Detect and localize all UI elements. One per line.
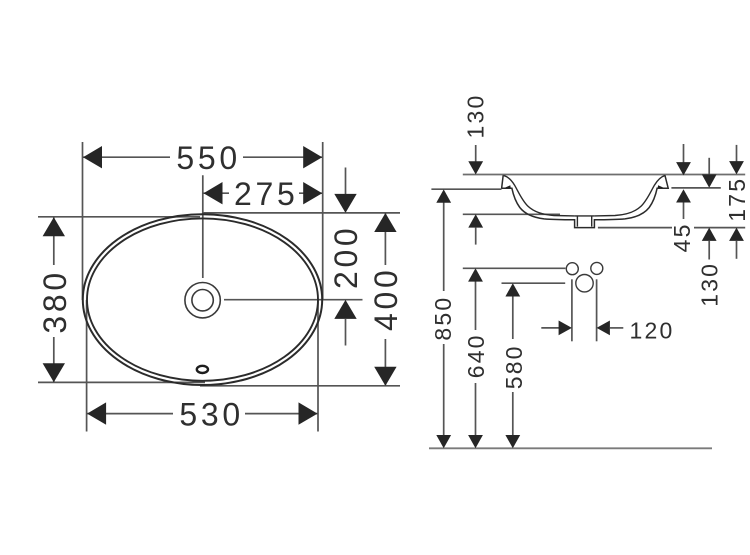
- label 530: [173, 400, 245, 428]
- ext line 120 left: [571, 279, 573, 341]
- dimension line 400: [384, 213, 386, 385]
- center horizontal line H7: [224, 299, 363, 301]
- dim 130-right lower tail: [708, 241, 710, 260]
- hatch wedge right rim: [658, 185, 665, 188]
- dimension line 550: [83, 156, 323, 158]
- hatch wedge left rim: [504, 185, 511, 188]
- dim 130-top upper tail: [475, 145, 477, 162]
- dimension line 850: [443, 202, 445, 436]
- svg-text:120: 120: [630, 317, 675, 343]
- inner ellipse of basin: [87, 218, 318, 380]
- drain inner wall right: [591, 216, 593, 227]
- label 580 (rotated): [501, 339, 524, 392]
- arrow 45 up: [676, 189, 691, 202]
- arrow 850 up: [436, 189, 451, 202]
- dim 175 upper tail: [736, 145, 738, 162]
- label 45 (rotated): [672, 220, 694, 253]
- arrow 130-top down: [468, 161, 483, 174]
- basin inner bowl surface left: [504, 175, 575, 216]
- svg-text:275: 275: [234, 176, 299, 212]
- arrow 400 down: [374, 367, 396, 386]
- label 550: [170, 144, 243, 171]
- arrow 640 up: [468, 268, 483, 281]
- svg-text:400: 400: [368, 267, 404, 332]
- ext line 120 right: [596, 279, 598, 341]
- dim 120 right tail: [610, 327, 623, 329]
- floor line: [429, 447, 712, 449]
- arrow 530 left: [87, 402, 106, 424]
- arrow 45 down: [676, 162, 691, 175]
- extension line V2 left 530: [86, 300, 88, 432]
- dimension line 380: [53, 218, 55, 383]
- dim 130-top lower tail: [475, 228, 477, 245]
- rim top line L1: [463, 174, 745, 176]
- svg-text:380: 380: [37, 269, 73, 334]
- arrow 200 down: [334, 194, 356, 213]
- label 275: [229, 180, 299, 207]
- dimension line 275: [204, 192, 323, 194]
- extension line V3 right 550/275: [322, 142, 324, 300]
- arrow 530 right: [299, 402, 318, 424]
- arrow 120 right-pointing: [559, 321, 572, 336]
- arrow 640 down: [468, 435, 483, 448]
- dimension 200 lower tail: [345, 318, 347, 345]
- dim 175 lower tail: [736, 241, 738, 259]
- arrow 550 right: [303, 146, 322, 168]
- center extension line V5: [202, 175, 204, 278]
- arrow 200 up: [334, 300, 356, 319]
- svg-text:130: 130: [696, 262, 722, 307]
- arrow 550 left: [83, 146, 102, 168]
- outer ellipse of basin: [83, 214, 322, 385]
- dim 120 left tail: [541, 327, 560, 329]
- label 640 (rotated): [464, 330, 487, 383]
- svg-text:550: 550: [176, 140, 241, 176]
- svg-text:640: 640: [463, 333, 489, 378]
- arrow 175 up: [729, 228, 744, 241]
- tangent line H6 bottom-right: [200, 385, 400, 387]
- supply hole right circle: [591, 262, 603, 274]
- svg-text:530: 530: [179, 397, 244, 433]
- svg-text:850: 850: [430, 296, 456, 341]
- arrow 120 left-pointing: [597, 321, 610, 336]
- tangent line H4 top-right: [202, 212, 400, 214]
- svg-text:580: 580: [501, 344, 527, 389]
- drain inner circle: [192, 290, 213, 311]
- label 400 (rotated): [371, 265, 399, 339]
- dimension 200 upper tail: [345, 168, 347, 196]
- arrow 380 up: [43, 217, 65, 236]
- arrow 580 up: [505, 283, 520, 296]
- extension line V1 left 550: [82, 142, 84, 300]
- dim 45 lower tail: [683, 203, 685, 220]
- connection line LB: [463, 267, 566, 269]
- svg-text:45: 45: [669, 222, 695, 252]
- drain mouth line: [575, 215, 595, 217]
- basin inner bowl surface right: [594, 175, 665, 216]
- arrow 850 down: [436, 435, 451, 448]
- drain outer circle: [185, 283, 220, 318]
- rim underside line L2 left: [431, 188, 501, 190]
- svg-text:130: 130: [463, 94, 489, 139]
- svg-text:200: 200: [328, 225, 364, 290]
- extension line V4 right 530: [317, 300, 319, 432]
- rim underside line L2 right: [671, 187, 720, 189]
- label 850 (rotated): [432, 291, 455, 344]
- arrow 580 down: [505, 435, 520, 448]
- label 380 (rotated): [39, 265, 67, 337]
- dimension line 580: [512, 296, 514, 436]
- svg-text:175: 175: [724, 177, 750, 222]
- overflow hole: [197, 366, 208, 373]
- arrow 275 right: [303, 182, 322, 204]
- basin outer shell profile: [502, 175, 669, 227]
- connection line LC: [502, 282, 566, 284]
- arrow 175 down: [729, 161, 744, 174]
- dimension line 530: [87, 413, 318, 415]
- tangent line H3 top-left: [38, 216, 200, 218]
- dim 130-right upper tail: [708, 158, 710, 175]
- apron bottom line L3: [598, 227, 745, 229]
- supply hole left circle: [566, 263, 578, 275]
- arrow 275 left: [204, 182, 223, 204]
- arrow 130-top up (bowl bottom): [468, 214, 483, 227]
- arrow 130-right down: [702, 174, 717, 187]
- dimension line 640: [475, 281, 477, 436]
- tangent line H5 bottom-left: [38, 381, 205, 383]
- dim 45 upper tail: [683, 144, 685, 163]
- arrow 380 down: [43, 363, 65, 382]
- arrow 130-right up: [702, 228, 717, 241]
- bowl depth line LA: [463, 213, 560, 215]
- drain inner wall left: [576, 216, 578, 227]
- arrow 400 up: [374, 213, 396, 232]
- waste hole big circle: [576, 275, 593, 292]
